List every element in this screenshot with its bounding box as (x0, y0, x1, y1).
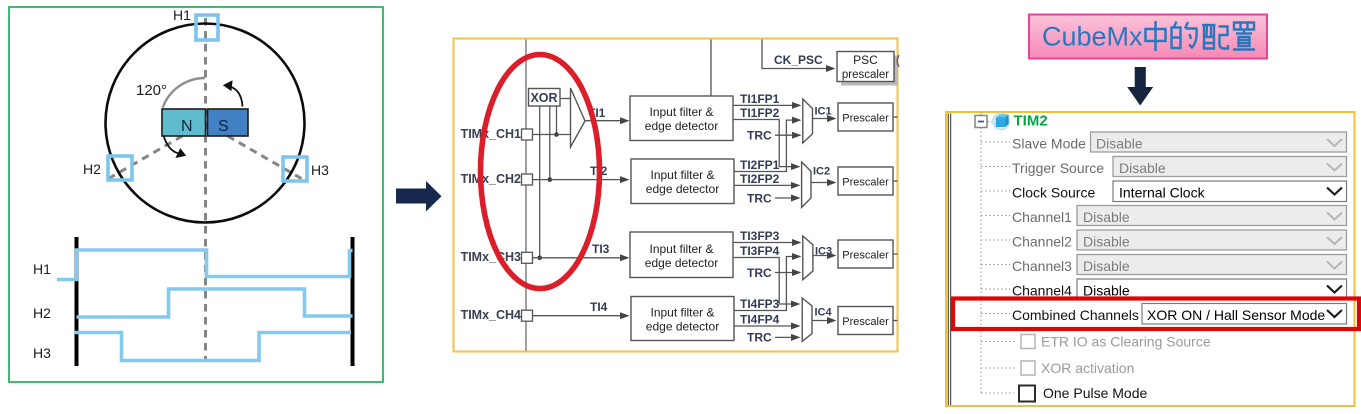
svg-text:IC4: IC4 (815, 307, 833, 319)
wire from top edge into input filter 1 (710, 40, 712, 97)
rotation arrow upper-right (229, 86, 243, 106)
svg-text:Input filter &: Input filter & (649, 105, 713, 119)
pin TIMx_CH4 (522, 310, 533, 321)
svg-text:H1: H1 (173, 7, 191, 23)
svg-text:TI1FP1: TI1FP1 (740, 92, 780, 106)
wire TI2 (533, 179, 629, 181)
svg-text:H3: H3 (33, 345, 51, 361)
svg-text:Disable: Disable (1083, 258, 1130, 274)
green frame (9, 7, 383, 382)
svg-text:XOR ON / Hall Sensor Mode: XOR ON / Hall Sensor Mode (1147, 307, 1325, 323)
waveform H1 trace (57, 250, 353, 280)
svg-text:edge detector: edge detector (646, 320, 719, 334)
svg-text:S: S (218, 118, 229, 135)
wire TRC row2 (775, 197, 799, 199)
pin TIMx_CH2 (522, 174, 533, 185)
row Channel2 (981, 239, 1010, 241)
svg-text:TRC: TRC (747, 266, 772, 280)
svg-text:Prescaler: Prescaler (842, 113, 889, 125)
svg-text:TIM2: TIM2 (1014, 113, 1048, 130)
big navy arrow between sections (396, 181, 442, 212)
wire TI4FP3 up to IC3 mux (734, 257, 800, 311)
svg-text:H3: H3 (311, 162, 329, 178)
glyph 配 (1202, 25, 1228, 49)
TIM2 peripheral icon (blue cube sphere) (993, 113, 1010, 130)
wire IC1 to prescaler (813, 118, 836, 120)
svg-text:TRC: TRC (747, 331, 772, 345)
XOR gate box U-XOR (529, 89, 561, 107)
hall sensor box H3 (283, 157, 307, 181)
IC2 mux (802, 162, 811, 207)
wire TRC row3 (775, 272, 800, 274)
svg-text:Internal Clock: Internal Clock (1119, 184, 1206, 200)
svg-text:TI4FP4: TI4FP4 (740, 313, 780, 327)
svg-text:PSC: PSC (853, 53, 878, 67)
svg-text:CK_PSC: CK_PSC (774, 53, 823, 67)
svg-text:TI2FP1: TI2FP1 (740, 158, 780, 172)
wire IC3 to prescaler (813, 255, 835, 257)
prescaler box 1 (838, 103, 893, 131)
svg-text:Combined Channels: Combined Channels (1012, 307, 1139, 323)
input filter & edge detector box 1 (630, 96, 733, 141)
red highlight rectangle (953, 299, 1359, 330)
PSC prescaler box (837, 52, 894, 82)
expand minus box (980, 113, 982, 116)
junction node CH2/XOR (548, 177, 553, 182)
magnet S half (208, 109, 249, 136)
wire TI2FP2 (734, 184, 799, 186)
PSC prescaler box shadow (841, 56, 898, 86)
cropped label fragment at right border (897, 55, 899, 67)
svg-text:One Pulse Mode: One Pulse Mode (1043, 385, 1147, 401)
IC4 mux (802, 298, 812, 341)
svg-text:Slave Mode: Slave Mode (1012, 135, 1086, 151)
IC3 mux (803, 236, 813, 280)
svg-text:Prescaler: Prescaler (842, 316, 889, 328)
IC1 mux (803, 99, 813, 143)
left scrollbar lines (947, 114, 949, 406)
svg-text:Input filter &: Input filter & (650, 168, 714, 182)
waveform H3 trace (74, 333, 351, 361)
pink title box (1029, 15, 1267, 59)
svg-text:CubeMx: CubeMx (1042, 22, 1143, 52)
svg-text:TI3FP4: TI3FP4 (740, 244, 780, 258)
svg-text:TRC: TRC (747, 191, 772, 205)
svg-text:ETR IO as Clearing Source: ETR IO as Clearing Source (1041, 333, 1211, 349)
XOR input wire to CH2 (549, 106, 551, 179)
pin rail vertical line (525, 40, 527, 352)
svg-text:Disable: Disable (1083, 282, 1130, 298)
svg-text:TI3FP3: TI3FP3 (740, 229, 780, 243)
row checkbox XOR activation (981, 367, 1016, 369)
junction node CH1/XOR (554, 132, 559, 137)
hall sensor box H2 (108, 156, 132, 180)
svg-text:edge detector: edge detector (646, 182, 719, 196)
rotor circle (106, 24, 305, 223)
svg-text:edge detector: edge detector (645, 256, 718, 270)
prescaler box 3 (838, 240, 893, 268)
svg-text:H2: H2 (33, 305, 51, 321)
svg-text:Disable: Disable (1083, 233, 1130, 249)
svg-text:Prescaler: Prescaler (842, 250, 889, 262)
wire prescaler3 out (893, 253, 898, 255)
dashed radial line to H3 (205, 123, 303, 180)
svg-text:TI2FP2: TI2FP2 (740, 172, 780, 186)
gold frame (454, 39, 898, 352)
XOR input wire to CH3 (539, 106, 541, 258)
wire prescaler2 out (893, 180, 898, 182)
wire IC4 to prescaler (812, 320, 835, 322)
svg-text:Channel2: Channel2 (1012, 233, 1072, 249)
svg-text:TRC: TRC (747, 129, 772, 143)
waveform right bar (351, 237, 355, 366)
svg-text:Channel1: Channel1 (1012, 209, 1072, 225)
svg-text:TIMx_CH2: TIMx_CH2 (461, 172, 521, 186)
wire TI3 (533, 257, 629, 259)
row Combined Channels (enabled) (981, 313, 1010, 315)
row Channel4 (enabled) (981, 288, 1010, 290)
svg-text:prescaler: prescaler (842, 69, 889, 81)
svg-text:N: N (181, 118, 193, 135)
120 degree gray arc (163, 78, 205, 108)
svg-text:Prescaler: Prescaler (842, 177, 889, 189)
input filter & edge detector box 3 (630, 232, 733, 278)
tree trunk dotted line (980, 128, 982, 394)
svg-text:H2: H2 (83, 161, 101, 177)
svg-text:TI1FP2: TI1FP2 (740, 106, 780, 120)
svg-text:XOR: XOR (530, 91, 557, 105)
wire TI1FP2 down to IC2 mux (733, 120, 799, 167)
TI1 select triangle (571, 88, 586, 147)
wire TRC row4 (775, 336, 799, 338)
glyph 中 (1146, 21, 1166, 51)
wire TI3FP4 down to IC4 mux (733, 258, 799, 305)
dashed radial line to H2 (106, 123, 205, 180)
pin TIMx_CH1 (522, 129, 533, 140)
row Channel1 (981, 215, 1010, 217)
svg-text:TI3: TI3 (592, 242, 610, 256)
row Trigger Source (981, 166, 1010, 168)
waveform H2 trace (77, 289, 353, 317)
input filter & edge detector box 4 (631, 297, 734, 341)
navy down arrow (1127, 67, 1153, 106)
svg-text:Channel4: Channel4 (1012, 282, 1072, 298)
hall sensor box H1 (196, 15, 218, 40)
svg-text:TI4: TI4 (590, 300, 608, 314)
svg-text:TIMx_CH3: TIMx_CH3 (461, 250, 521, 264)
svg-text:TIMx_CH4: TIMx_CH4 (461, 308, 521, 322)
wire CK_PSC (762, 40, 834, 69)
svg-text:IC2: IC2 (813, 166, 830, 178)
svg-text:Clock Source: Clock Source (1012, 184, 1095, 200)
row Clock Source (enabled) (981, 190, 1010, 192)
svg-text:120°: 120° (136, 82, 167, 99)
wire prescaler1 out (893, 116, 898, 118)
svg-text:Channel3: Channel3 (1012, 258, 1072, 274)
glyph 置 (1233, 23, 1255, 50)
wire IC2 to prescaler (811, 182, 835, 184)
junction node CH3/XOR (537, 255, 542, 260)
wire TI3FP3 (733, 242, 800, 244)
rotation arrow lower-left (163, 134, 180, 154)
magnet N half (162, 109, 206, 136)
XOR input wire to CH1 (556, 106, 558, 134)
svg-text:Input filter &: Input filter & (650, 306, 714, 320)
gold panel frame (946, 112, 1355, 406)
wire TI1 from triangle to input filter 1 (585, 120, 628, 122)
pin TIMx_CH3 (522, 252, 533, 263)
input filter & edge detector box 2 (631, 159, 734, 204)
wire TI4 (533, 315, 629, 317)
red highlight ellipse around XOR (481, 55, 600, 289)
wire TI1FP1 (733, 104, 800, 106)
svg-text:H1: H1 (33, 261, 51, 277)
wire TI2FP1 up to IC1 mux (734, 120, 800, 171)
wire TRC row1 (775, 134, 800, 136)
prescaler box 4 (838, 307, 893, 335)
svg-text:TI4FP3: TI4FP3 (740, 297, 780, 311)
wire TI4FP4 (734, 325, 799, 327)
prescaler box 2 (838, 167, 893, 195)
glyph 的 (1172, 22, 1197, 49)
svg-text:Disable: Disable (1096, 135, 1143, 151)
row Slave Mode (981, 141, 1010, 143)
svg-text:Input filter &: Input filter & (649, 242, 713, 256)
row checkbox One Pulse Mode (981, 392, 1014, 394)
svg-text:Disable: Disable (1083, 209, 1130, 225)
svg-text:XOR activation: XOR activation (1041, 360, 1134, 376)
wire prescaler4 out (893, 320, 898, 322)
waveform left bar (75, 237, 79, 366)
svg-text:IC1: IC1 (815, 106, 832, 118)
svg-text:edge detector: edge detector (645, 119, 718, 133)
svg-text:Trigger Source: Trigger Source (1012, 160, 1104, 176)
wire XOR output to mux triangle (560, 98, 571, 100)
dotted link to icon (988, 121, 993, 123)
row checkbox ETR IO as Clearing Source (981, 341, 1016, 343)
svg-text:Disable: Disable (1119, 160, 1166, 176)
row Channel3 (981, 264, 1010, 266)
dashed center vertical line (204, 18, 207, 359)
wire CH1 to triangle (533, 134, 571, 136)
svg-text:TIMx_CH1: TIMx_CH1 (461, 127, 521, 141)
